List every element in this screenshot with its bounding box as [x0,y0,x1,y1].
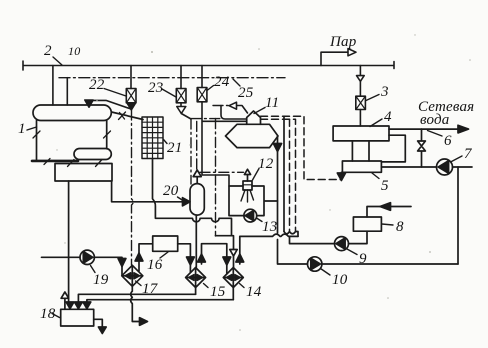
wire deaerator drain down to pump 10 line [278,136,308,264]
ejector 12 legs [241,190,254,202]
node label 2 leader [53,57,62,65]
wire drain hooks joint [284,232,298,237]
wire heater 17 drain to blowoff arrow [131,286,140,321]
wire makeup feed line with left arrow [367,207,411,218]
svg-text:19: 19 [93,272,109,288]
ejector 12 vent valve [247,175,249,182]
svg-text:18: 18 [40,306,56,322]
wire network water out [389,128,458,130]
boiler lower drum [74,149,111,160]
svg-text:6: 6 [444,133,452,149]
wire valve23 outlet jog to dash-dot [181,114,191,120]
cooler 8 [353,217,381,231]
svg-text:24: 24 [214,74,230,90]
svg-text:15: 15 [210,284,226,300]
svg-text:11: 11 [265,95,279,111]
arrow filled up on 14 outlet [236,254,244,262]
pump 7 [437,159,453,175]
wire furnace to flash tank 20 [112,181,186,202]
wire pipe from 4 right to 5 [381,135,405,162]
boiler base [32,160,78,163]
svg-text:12: 12 [258,156,274,172]
svg-text:5: 5 [381,178,389,194]
hatch marks boiler [33,131,111,167]
wire dash-dot down from valve 23 [190,119,192,184]
wire drop from dash-dot to drum [66,78,68,105]
wire 16 to heater 17 [139,244,153,271]
wire heater 15 outlet bridge to heater 14 [202,244,227,273]
svg-text:3: 3 [380,84,389,100]
valve 23 [180,66,182,89]
wire right downcomer [457,167,459,264]
arrow filled down to 15 [187,257,195,265]
pump 9 [335,237,349,251]
wire economizer down to heater 14 funnel [153,159,234,250]
arrow filled right network water [458,125,469,133]
wire cooler loop of pump 13 [229,186,278,216]
wire valve 3 to heater 4 [359,110,361,127]
valve 6 [421,129,423,167]
deaerator head 11 [247,111,261,124]
pump 10 [308,257,322,271]
svg-text:8: 8 [396,219,404,235]
wire dashed heater extraction C [289,119,291,231]
wire impulse dash-dot line 25 [59,77,285,79]
wire dash-dot vertical middle [215,119,217,236]
wire dashed heater extraction A [261,116,342,179]
wire feed line valve22 to drum arrow [90,100,131,109]
wire drop from header to drum (left) [52,66,54,106]
wire dash-dot steam line from valve 22 down to heater 17 [132,110,134,265]
svg-text:20: 20 [163,183,179,199]
deaerator tank 11 [226,124,279,147]
svg-text:13: 13 [262,219,277,235]
svg-text:4: 4 [384,109,392,125]
wire steam header line 2 [23,61,394,70]
svg-text:7: 7 [464,146,473,162]
wire steam to valve 3 [359,66,361,97]
valve 22 [130,66,132,89]
wire valve 24 outlet down and branch to deaerator head [202,102,247,186]
svg-text:10: 10 [68,44,80,58]
wire solid drain D [283,116,285,231]
wire stub impulse to funnel [216,235,232,237]
wire steam riser Par [321,52,348,65]
arrow filled up into 16 line [135,253,143,261]
wire blowdown furnace to tank 18 [68,181,70,303]
wire pump 9 suction from drain bundle [290,236,335,243]
arrow filled right into capsule 20 [183,198,191,206]
svg-text:23: 23 [148,80,163,96]
wire dashed heater extraction B [261,119,296,231]
wire 16 to heater 15 [178,244,191,272]
svg-text:14: 14 [246,284,262,300]
svg-text:Пар: Пар [329,34,357,50]
wire dash-dot horizontal impulse (middle) [191,118,221,120]
valve 24 [201,66,203,88]
heater 17 diamond [122,265,143,286]
valve 3 [356,96,366,109]
economizer grid 21 [142,117,163,159]
wire heaters 4-5 connections [352,141,369,161]
wire pump 19 to heater 17 [94,257,122,275]
flash tank 20 [190,184,204,216]
vent valve of tank 20 [196,177,198,184]
heater 4 [333,126,389,141]
tank 18 vent [64,298,66,309]
wire drum to economizer diagonal [112,112,144,120]
open triangle below valve 23 [177,107,186,114]
boiler body [37,121,107,160]
svg-text:вода: вода [420,112,450,128]
boiler 1 top drum [33,105,111,121]
wire heater bottoms to condensate buses [196,288,234,300]
svg-text:9: 9 [359,251,367,267]
svg-text:21: 21 [167,140,182,156]
wire condensate bus lower [87,300,233,302]
funnel open triangle above heater 14 [230,250,237,257]
wire condensate bus upper [78,294,195,302]
svg-text:25: 25 [238,85,254,101]
wire return water line to pump 7 [381,166,472,168]
heater 14 diamond [223,268,243,288]
cooler 16 [153,236,178,251]
wire pump 10 discharge [322,263,458,265]
wire dash-dot to ejector 12 [200,171,244,173]
arrows filled down into tank 18 [66,302,91,309]
arrow open right (Par) [348,49,356,56]
vent line with open left arrow (deaerator) [213,105,228,107]
svg-text:16: 16 [147,257,163,273]
svg-text:17: 17 [142,281,159,297]
svg-text:2: 2 [44,43,52,59]
ejector 12 body [243,181,252,190]
tank 18 [61,309,94,326]
wire flash tank 20 down to heater 15 [195,215,197,267]
svg-text:1: 1 [18,121,26,137]
wire condensate into deaerator head [221,106,247,120]
label 25 leader [233,79,240,86]
heater 15 diamond [186,268,206,288]
wire cooler 8 to pump 9 [349,231,368,243]
wire heater 14 outlet to drain joint with humps [240,234,298,264]
wire feed line to pump 19 [42,256,81,258]
pump 19 [80,250,94,264]
boiler furnace [55,164,112,182]
svg-text:22: 22 [89,77,105,93]
arrow filled down on deaerator drain [273,144,281,152]
svg-text:10: 10 [332,272,348,288]
arrow filled down into drum [85,100,93,107]
pump 13 [244,209,257,222]
wire tank 18 outlet [94,319,103,327]
heater 5 [342,161,381,172]
wire heater 5 drain arrow [340,172,342,173]
check valve open triangle down (above 3) [357,76,365,82]
arrow filled down below valve 22 [127,103,136,110]
arrow filled down to 17 [118,259,126,267]
